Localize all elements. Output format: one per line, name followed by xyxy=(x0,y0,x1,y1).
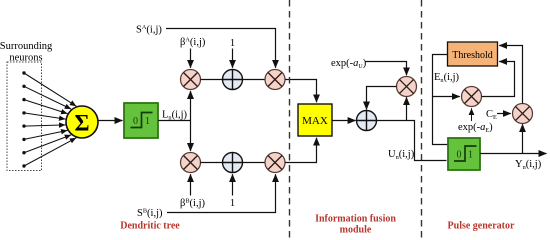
wire: SA input line xyxy=(166,29,276,68)
dashed separator 1 xyxy=(289,0,291,239)
svg-text:MAX: MAX xyxy=(302,115,328,127)
svg-text:1: 1 xyxy=(230,198,235,209)
svg-text:0: 0 xyxy=(457,150,462,161)
wire: B1 to adder B xyxy=(201,162,223,164)
multiplier Y xyxy=(513,104,533,124)
wire: U feedback up into multiplier U xyxy=(406,97,408,120)
wire: exp(-aE) arrow into multiplier E xyxy=(471,108,473,121)
wire: multiplier E output to threshold xyxy=(482,62,515,97)
svg-text:βB(i,j): βB(i,j) xyxy=(180,198,206,209)
wire: Y feedback up into multiplier Y xyxy=(522,124,524,153)
svg-text:0: 0 xyxy=(133,116,138,127)
wire: linking output to branch node xyxy=(158,120,191,122)
multiplier U xyxy=(397,77,417,97)
multiplier B1 xyxy=(181,153,201,173)
dashed separator 2 xyxy=(421,0,423,239)
svg-text:Threshold: Threshold xyxy=(452,50,493,61)
svg-text:exp(-aE): exp(-aE) xyxy=(458,122,493,134)
wire: MAX to adder F xyxy=(332,120,356,122)
block: step function 2 (pulse) xyxy=(448,138,480,170)
label: Information fusion module xyxy=(315,214,396,236)
wire: exp(-aU) to multiplier U xyxy=(365,62,407,76)
svg-text:Surrounding: Surrounding xyxy=(0,41,53,52)
wire: threshold E output to multiplier E xyxy=(433,55,460,97)
node: input neuron dots xyxy=(22,71,25,167)
adder B xyxy=(223,153,243,173)
svg-text:SA(i,j): SA(i,j) xyxy=(136,24,162,35)
svg-text:exp(-aU): exp(-aU) xyxy=(331,58,367,70)
wire: adder A to multiplier A2 xyxy=(243,79,266,81)
wire: E branch down to step block 2 xyxy=(433,97,449,145)
svg-text:1: 1 xyxy=(468,150,473,161)
wire: A2 to MAX top xyxy=(285,80,317,103)
svg-text:Un(i,j): Un(i,j) xyxy=(388,149,415,161)
multiplier A2 xyxy=(265,70,285,90)
dotted box: surrounding neurons region xyxy=(7,62,42,171)
wire: linking branch up xyxy=(190,91,192,121)
svg-text:βA(i,j): βA(i,j) xyxy=(180,37,206,48)
wire: adder F output to step block 2 xyxy=(377,121,447,161)
multiplier A1 xyxy=(181,70,201,90)
svg-text:1: 1 xyxy=(145,116,150,127)
svg-text:Ln(i,j): Ln(i,j) xyxy=(162,110,188,122)
wire: constant 1 arrow (bottom) xyxy=(232,174,234,195)
block: Threshold xyxy=(448,42,498,66)
wire: adder B to multiplier B2 xyxy=(243,162,266,164)
wire: constant 1 arrow (top) xyxy=(232,49,234,68)
svg-text:En(i,j): En(i,j) xyxy=(434,72,460,84)
svg-text:Yn(i,j): Yn(i,j) xyxy=(515,159,542,171)
multiplier B2 xyxy=(265,153,285,173)
svg-text:Information fusion: Information fusion xyxy=(315,214,396,225)
label: Surrounding neurons xyxy=(0,41,53,64)
wire: multiplier U to adder F xyxy=(367,87,397,110)
wire: A1 to adder A xyxy=(201,79,223,81)
block: step function 1 (linking) xyxy=(124,103,158,138)
svg-text:Σ: Σ xyxy=(74,111,89,136)
adder F xyxy=(357,111,377,131)
svg-text:Pulse generator: Pulse generator xyxy=(448,221,515,232)
wire: Y output xyxy=(480,153,547,155)
wire: synapse arrows into sigma xyxy=(24,73,76,166)
wire: sigma to step block xyxy=(99,120,123,122)
svg-text:CE: CE xyxy=(486,109,497,121)
block: MAX xyxy=(298,104,332,136)
wire: CE arrow into multiplier Y xyxy=(497,113,511,115)
svg-text:SB(i,j): SB(i,j) xyxy=(137,208,163,219)
svg-text:Dendritic tree: Dendritic tree xyxy=(120,221,180,232)
adder A xyxy=(223,70,243,90)
wire: betaB arrow xyxy=(190,174,192,195)
wire: multiplier Y output to threshold xyxy=(499,46,522,104)
summation unit sigma xyxy=(66,106,98,138)
wire: betaA arrow xyxy=(190,49,192,68)
wire: B2 to MAX bottom xyxy=(285,138,317,163)
svg-text:module: module xyxy=(340,225,372,236)
multiplier E xyxy=(462,87,482,107)
svg-text:1: 1 xyxy=(230,38,235,49)
wire: linking branch down xyxy=(190,121,192,152)
wire: SB input line xyxy=(167,174,276,212)
